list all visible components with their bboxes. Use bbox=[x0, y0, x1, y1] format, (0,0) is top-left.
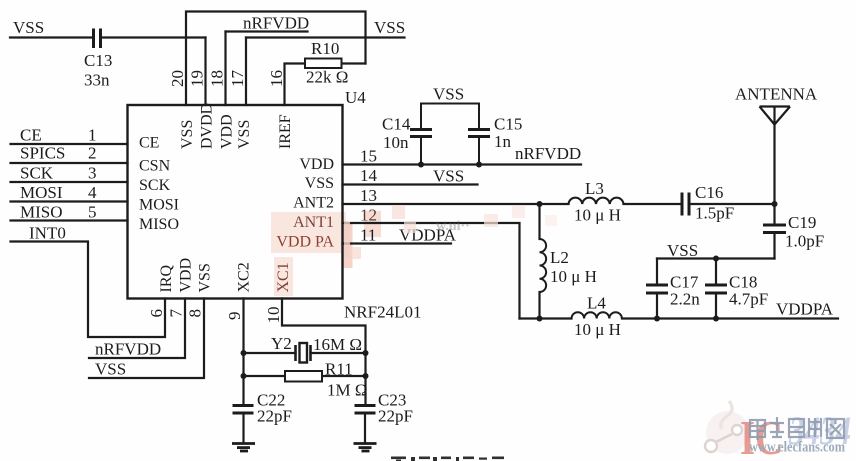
svg-text:VSS: VSS bbox=[13, 18, 44, 37]
crystal Y2 bbox=[296, 345, 311, 361]
svg-text:VSS: VSS bbox=[374, 18, 405, 37]
svg-text:C16: C16 bbox=[695, 183, 723, 202]
node pin17 vertical bbox=[245, 38, 247, 106]
wire pin14 VSS bbox=[343, 183, 478, 185]
wire pin12 ANT1 down to rail bbox=[343, 223, 520, 319]
wire pin15 VDD to nRFVDD bbox=[343, 163, 582, 165]
wire C19 top lead bbox=[773, 204, 775, 224]
svg-text:L2: L2 bbox=[550, 248, 569, 267]
svg-text:IREF: IREF bbox=[277, 114, 294, 149]
resistor R11 bbox=[285, 371, 322, 382]
pin numbers bottom rotated bbox=[147, 307, 283, 324]
svg-text:22k Ω: 22k Ω bbox=[306, 68, 348, 87]
wire bottom rail VDDPA bbox=[520, 317, 572, 319]
svg-text:CE: CE bbox=[20, 126, 42, 145]
wire pin10 XC1 path bbox=[282, 299, 366, 405]
node crystal left junction bbox=[241, 350, 247, 356]
inductor L3 bbox=[569, 198, 624, 204]
node C18 rail junction bbox=[713, 316, 719, 322]
svg-text:10 μ H: 10 μ H bbox=[574, 320, 621, 339]
svg-text:VSS: VSS bbox=[197, 263, 214, 292]
wire L3 to C16 bbox=[624, 203, 682, 205]
svg-text:NRF24L01: NRF24L01 bbox=[344, 303, 421, 322]
node C17 rail junction bbox=[654, 316, 660, 322]
wire C16 to antenna node bbox=[691, 203, 775, 205]
ground below C23 bbox=[354, 444, 377, 452]
wire INT0 to pin6 IRQ bbox=[11, 242, 166, 338]
svg-text:9: 9 bbox=[225, 312, 244, 321]
wire VSS top-left to C13 bbox=[10, 36, 92, 38]
svg-text:SCK: SCK bbox=[139, 177, 171, 194]
svg-text:IRQ: IRQ bbox=[158, 265, 175, 293]
pin labels inside chip right bbox=[276, 156, 334, 251]
wire L2 branch bottom bbox=[538, 292, 540, 319]
pin labels inside chip bottom rotated bbox=[158, 258, 292, 293]
svg-text:C13: C13 bbox=[84, 51, 112, 70]
svg-text:20: 20 bbox=[168, 70, 187, 87]
svg-text:VSS: VSS bbox=[433, 85, 464, 104]
capacitor C15 bbox=[468, 130, 490, 137]
svg-text:14: 14 bbox=[360, 166, 378, 185]
svg-text:C15: C15 bbox=[494, 115, 522, 134]
capacitor C19 bbox=[763, 225, 786, 233]
svg-text:1: 1 bbox=[88, 126, 97, 145]
capacitor C14 bbox=[410, 130, 432, 137]
svg-text:5: 5 bbox=[88, 203, 97, 222]
capacitor C22 bbox=[233, 406, 254, 414]
svg-text:VDD PA: VDD PA bbox=[276, 234, 334, 251]
svg-text:18: 18 bbox=[208, 70, 227, 87]
svg-text:nRFVDD: nRFVDD bbox=[515, 144, 581, 163]
capacitor C13 bbox=[94, 29, 101, 49]
wire R11 right lead bbox=[322, 375, 366, 377]
capacitor C16 bbox=[682, 193, 689, 216]
svg-text:16M Ω: 16M Ω bbox=[313, 335, 362, 354]
svg-text:SPICS: SPICS bbox=[20, 144, 65, 163]
svg-text:17: 17 bbox=[228, 70, 247, 88]
svg-text:CSN: CSN bbox=[139, 158, 171, 175]
right side pin wires bbox=[343, 125, 839, 319]
svg-text:MOSI: MOSI bbox=[139, 197, 179, 214]
inductor L4 bbox=[572, 312, 622, 318]
svg-text:VSS: VSS bbox=[433, 167, 464, 186]
right pin numbers bbox=[360, 147, 378, 245]
wire crystal right lead bbox=[311, 352, 366, 354]
wire L2 branch top bbox=[538, 204, 540, 239]
node C15 junction bbox=[476, 162, 482, 168]
svg-text:ANT2: ANT2 bbox=[293, 195, 334, 212]
wire MOSI pin4 bbox=[11, 200, 128, 202]
wire pin13 ANT2 to L3 bbox=[343, 203, 569, 205]
node R11 right junction bbox=[363, 373, 369, 379]
svg-text:15: 15 bbox=[360, 147, 377, 166]
wire VSS bracket over C14 C15 bbox=[421, 104, 479, 129]
svg-text:VSS: VSS bbox=[305, 175, 334, 192]
wire VSS to pin8 bbox=[89, 299, 204, 379]
op chip U4 body bbox=[128, 105, 343, 299]
wire C17 top lead bbox=[656, 259, 658, 285]
wire antenna down lead bbox=[773, 125, 775, 205]
svg-text:VDDPA: VDDPA bbox=[776, 300, 834, 319]
svg-text:1.0pF: 1.0pF bbox=[785, 232, 824, 251]
svg-text:12: 12 bbox=[360, 206, 377, 225]
pin numbers top rotated bbox=[168, 70, 286, 88]
pin labels inside chip left bbox=[139, 135, 179, 234]
watermark faint center bbox=[344, 205, 557, 259]
capacitor C17 bbox=[646, 285, 668, 293]
inductor L2 bbox=[540, 239, 547, 292]
wire C19 bottom lead bbox=[773, 234, 775, 259]
svg-text:7: 7 bbox=[167, 309, 186, 318]
wire pin17 VSS to top-right VSS bbox=[246, 36, 405, 38]
svg-text:DVDD: DVDD bbox=[199, 103, 216, 149]
svg-text:MISO: MISO bbox=[139, 216, 179, 233]
svg-text:2: 2 bbox=[88, 144, 97, 163]
svg-text:13: 13 bbox=[360, 186, 377, 205]
svg-text:8: 8 bbox=[186, 309, 205, 318]
wire SCK pin3 bbox=[11, 181, 128, 183]
svg-text:33n: 33n bbox=[84, 71, 110, 90]
svg-text:3: 3 bbox=[88, 164, 97, 183]
wire SPICS pin2 bbox=[11, 162, 128, 164]
capacitor C23 bbox=[355, 406, 376, 414]
svg-text:2.2n: 2.2n bbox=[670, 290, 700, 309]
wire C23 to ground bbox=[364, 413, 366, 443]
svg-text:www.elecfans.com: www.elecfans.com bbox=[749, 440, 845, 456]
svg-text:VDD: VDD bbox=[178, 258, 195, 293]
watermark logo bottom right bbox=[705, 401, 851, 461]
node pin18 vertical VDD bbox=[224, 32, 226, 106]
node pin19 vertical DVDD bbox=[204, 38, 206, 106]
left input wires pins 1-5 bbox=[11, 144, 205, 378]
svg-text:VDD: VDD bbox=[299, 156, 334, 173]
svg-text:19: 19 bbox=[188, 70, 207, 87]
svg-text:Y2: Y2 bbox=[271, 334, 292, 353]
caption partial bottom bbox=[391, 457, 504, 461]
svg-text:XC1: XC1 bbox=[275, 262, 292, 292]
svg-text:16: 16 bbox=[267, 70, 286, 87]
crystal network bbox=[244, 299, 366, 405]
node L2 bottom junction bbox=[537, 316, 543, 322]
resistor R10 bbox=[305, 59, 342, 69]
wire crystal left lead bbox=[244, 352, 296, 354]
wire C18 bottom lead bbox=[715, 294, 717, 319]
svg-text:22pF: 22pF bbox=[257, 407, 292, 426]
wire CE pin1 bbox=[11, 143, 128, 145]
svg-text:R11: R11 bbox=[325, 360, 353, 379]
node antenna C16 junction bbox=[772, 201, 778, 207]
wire C18 top lead bbox=[715, 259, 717, 285]
node crystal right junction bbox=[363, 350, 369, 356]
svg-text:1n: 1n bbox=[494, 132, 512, 151]
svg-text:VSS: VSS bbox=[95, 360, 126, 379]
svg-text:L3: L3 bbox=[585, 179, 604, 198]
wire C13 to pin19 DVDD bbox=[101, 36, 206, 38]
wire MISO pin5 bbox=[11, 219, 128, 221]
svg-text:nRFVDD: nRFVDD bbox=[243, 14, 309, 33]
svg-text:w.ui··: w.ui·· bbox=[436, 219, 470, 234]
pin labels inside chip top rotated bbox=[179, 103, 294, 149]
svg-text:10n: 10n bbox=[383, 133, 409, 152]
svg-text:MOSI: MOSI bbox=[20, 183, 63, 202]
svg-text:VDD: VDD bbox=[219, 114, 236, 149]
wire pin9 XC2 down bbox=[242, 299, 244, 405]
capacitor C18 bbox=[705, 285, 727, 293]
wire R10 right lead bbox=[342, 62, 366, 64]
svg-text:10 μ H: 10 μ H bbox=[550, 267, 597, 286]
wire R11 left lead bbox=[244, 375, 286, 377]
svg-text:1.5pF: 1.5pF bbox=[695, 204, 734, 223]
node C14 junction bbox=[418, 162, 424, 168]
wire C22 to ground bbox=[242, 413, 244, 443]
svg-text:XC2: XC2 bbox=[236, 262, 253, 292]
node L2 top junction bbox=[537, 201, 543, 207]
svg-text:VSS: VSS bbox=[667, 241, 698, 260]
node labels left bbox=[20, 126, 161, 379]
svg-text:10 μ H: 10 μ H bbox=[574, 206, 621, 225]
wire nRFVDD top bbox=[226, 30, 308, 32]
antenna symbol bbox=[760, 107, 791, 125]
svg-text:nRFVDD: nRFVDD bbox=[95, 340, 161, 359]
svg-text:U4: U4 bbox=[345, 88, 366, 107]
svg-text:ANTENNA: ANTENNA bbox=[735, 85, 818, 104]
svg-text:VSS: VSS bbox=[179, 120, 196, 149]
wire nRFVDD to pin7 bbox=[89, 299, 185, 359]
svg-text:SCK: SCK bbox=[20, 164, 54, 183]
wire pin11 VDDPA stub bbox=[343, 242, 452, 244]
svg-text:VSS: VSS bbox=[236, 120, 253, 149]
wire C17 bottom lead bbox=[656, 294, 658, 319]
node C19 VSS rail junction bbox=[713, 256, 719, 262]
svg-text:ANT1: ANT1 bbox=[293, 214, 334, 231]
svg-text:1M Ω: 1M Ω bbox=[327, 381, 368, 400]
svg-text:C14: C14 bbox=[382, 115, 411, 134]
svg-text:MISO: MISO bbox=[20, 203, 63, 222]
wire pin16 IREF to R10 bbox=[285, 64, 306, 106]
svg-text:4.7pF: 4.7pF bbox=[729, 290, 768, 309]
svg-text:C19: C19 bbox=[788, 213, 816, 232]
svg-text:R10: R10 bbox=[311, 39, 339, 58]
svg-text:INT0: INT0 bbox=[29, 224, 66, 243]
svg-text:6: 6 bbox=[147, 309, 166, 318]
watermark pink wash behind chip right labels bbox=[271, 211, 381, 296]
svg-text:L4: L4 bbox=[587, 294, 606, 313]
svg-text:10: 10 bbox=[264, 307, 283, 324]
svg-text:22pF: 22pF bbox=[378, 407, 413, 426]
node R11 left junction bbox=[241, 373, 247, 379]
ground below C22 bbox=[232, 444, 255, 452]
svg-text:CE: CE bbox=[139, 135, 159, 152]
wire top box pin20 VSS loop bbox=[186, 12, 366, 106]
svg-text:4: 4 bbox=[88, 183, 97, 202]
svg-text:11: 11 bbox=[360, 226, 376, 245]
wire VSS rail right bbox=[657, 257, 775, 259]
